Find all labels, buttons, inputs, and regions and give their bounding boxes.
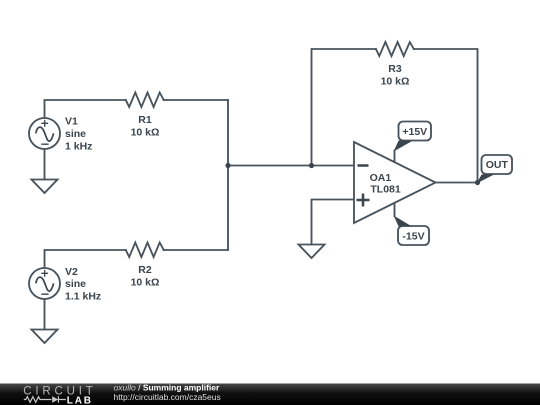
wire output: [436, 182, 478, 184]
svg-text:LAB: LAB: [67, 395, 93, 405]
V1 minus: [41, 143, 48, 145]
wire V2 top to R2: [45, 250, 126, 269]
wire V2 bottom to ground: [44, 300, 46, 330]
flag -15V box: [398, 226, 429, 245]
sine wave V2: [36, 277, 54, 291]
wire noninverting input: [312, 200, 355, 245]
resistor R3: [376, 42, 414, 56]
flag OUT box: [482, 155, 513, 174]
flag OUT tail: [477, 175, 494, 184]
flag +15V tail: [394, 141, 413, 152]
logo diode: [52, 396, 58, 402]
pin +V: [394, 151, 396, 162]
svg-text:-15V: -15V: [402, 231, 424, 243]
op-amp OA1: [354, 142, 436, 223]
V2 plus: [41, 270, 48, 277]
wire V1 bottom to ground: [44, 150, 46, 180]
svg-text:OA1: OA1: [370, 172, 392, 184]
wire V1 top to R1: [45, 100, 126, 119]
flag -15V tail: [394, 216, 412, 227]
svg-text:R2: R2: [138, 264, 152, 276]
junction node A (input sum): [225, 163, 230, 168]
sine source V2: [29, 268, 60, 299]
svg-text:V1: V1: [65, 116, 78, 128]
svg-text:+15V: +15V: [402, 126, 427, 138]
wire R2 to node column: [164, 249, 228, 251]
wire feedback right: [414, 49, 478, 183]
svg-text:http://circuitlab.com/cza5eus: http://circuitlab.com/cza5eus: [114, 392, 221, 402]
pin -V: [394, 203, 396, 216]
svg-text:10 kΩ: 10 kΩ: [381, 76, 410, 88]
sine source V1: [29, 118, 60, 149]
wire feedback left vertical: [312, 49, 376, 166]
svg-text:V2: V2: [65, 266, 78, 278]
svg-text:TL081: TL081: [370, 184, 401, 196]
V2 minus: [41, 293, 48, 295]
wire node to inverting input: [228, 165, 354, 167]
svg-text:sine: sine: [65, 278, 86, 290]
svg-text:oxullo / Summing amplifier: oxullo / Summing amplifier: [114, 382, 221, 392]
flag +15V box: [399, 122, 432, 141]
op-amp plus input mark: [357, 194, 370, 207]
svg-text:10 kΩ: 10 kΩ: [131, 277, 160, 289]
ground G1: [32, 180, 58, 194]
wire R1 to node column: [164, 99, 228, 101]
svg-text:OUT: OUT: [486, 159, 509, 171]
junction node OUT: [475, 180, 480, 185]
svg-text:R1: R1: [138, 114, 152, 126]
resistor R1: [126, 93, 164, 108]
sine wave V1: [36, 127, 54, 141]
svg-text:1 kHz: 1 kHz: [65, 141, 92, 153]
V1 plus: [41, 120, 48, 127]
svg-text:1.1 kHz: 1.1 kHz: [65, 291, 101, 303]
footer bar: [0, 384, 540, 405]
junction node B (feedback tap): [309, 163, 314, 168]
svg-text:10 kΩ: 10 kΩ: [131, 127, 160, 139]
op-amp minus input mark: [358, 164, 369, 167]
svg-text:R3: R3: [388, 63, 402, 75]
svg-text:sine: sine: [65, 128, 86, 140]
ground G2: [32, 330, 58, 344]
logo squiggle resistor: [24, 397, 52, 403]
ground G3: [299, 245, 325, 259]
resistor R2: [126, 243, 164, 258]
wire vertical bus x=228: [227, 100, 229, 250]
